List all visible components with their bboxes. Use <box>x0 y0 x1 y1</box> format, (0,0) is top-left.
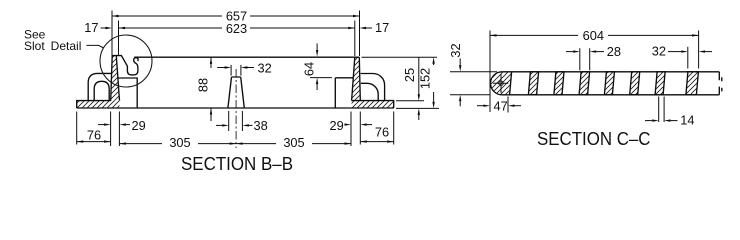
svg-text:SECTION B–B: SECTION B–B <box>181 154 293 174</box>
dim 28 <box>566 51 574 53</box>
dim 14 ext lines <box>659 97 664 123</box>
top surface line <box>134 56 359 58</box>
slot profile at top of left wall <box>116 56 138 75</box>
svg-text:305: 305 <box>169 135 190 150</box>
svg-text:76: 76 <box>87 127 101 142</box>
svg-text:SECTION C–C: SECTION C–C <box>537 129 651 149</box>
dim 623 extension lines <box>119 21 355 57</box>
dim 88: top arrow <box>210 57 212 68</box>
dim 305 right <box>236 143 351 145</box>
dim 14 <box>645 120 652 122</box>
right wall (hatched) <box>352 57 361 100</box>
svg-text:32: 32 <box>652 43 666 58</box>
svg-text:64: 64 <box>302 62 317 76</box>
svg-text:305: 305 <box>283 135 304 150</box>
svg-text:17: 17 <box>84 20 98 35</box>
left cap hatch <box>491 72 512 95</box>
slot segment 5 <box>630 72 640 95</box>
break lines right end <box>719 72 722 95</box>
centerline <box>235 69 237 148</box>
dim 17 right <box>360 27 367 29</box>
svg-text:25: 25 <box>402 68 417 82</box>
detail circle <box>100 35 152 87</box>
right block <box>335 78 353 108</box>
dim 32 post <box>217 67 254 69</box>
slot segment 7 <box>686 72 699 95</box>
svg-text:29: 29 <box>330 118 344 133</box>
svg-text:47: 47 <box>493 99 507 114</box>
dim 38 <box>216 124 222 126</box>
slot segment 4 <box>604 72 614 95</box>
right base plate (hatched) <box>352 101 394 108</box>
slot segment 6 <box>655 72 665 95</box>
dim 29 left <box>98 124 105 126</box>
dim 623 <box>119 27 355 29</box>
svg-text:14: 14 <box>680 112 694 127</box>
dim 32 post: ext lines <box>231 65 241 76</box>
cap right edge <box>510 72 512 95</box>
left wall (hatched) <box>111 56 120 101</box>
leader to circle <box>87 45 104 48</box>
dim 47 <box>477 105 484 107</box>
left eye inner <box>94 81 109 100</box>
right eye inner <box>361 83 378 100</box>
dim 28 ext lines <box>580 48 590 70</box>
left eye outer <box>88 73 111 100</box>
svg-text:38: 38 <box>254 118 268 133</box>
left base plate (hatched) <box>77 101 120 108</box>
svg-text:88: 88 <box>196 78 211 92</box>
dim 657 <box>112 15 360 17</box>
dim 47 ext lines <box>507 97 509 113</box>
slot segment 2 <box>554 72 564 95</box>
bar top line <box>502 71 719 73</box>
dim 657 extension lines <box>112 11 360 57</box>
base plate bottom line <box>77 107 394 109</box>
dim 32 left: ext lines <box>450 72 497 95</box>
slot segment 1 <box>528 72 538 95</box>
svg-text:152: 152 <box>418 68 433 89</box>
svg-text:623: 623 <box>226 21 247 36</box>
svg-text:32: 32 <box>448 43 463 57</box>
right side ext lines (25/152) <box>362 57 440 108</box>
left block <box>118 78 137 108</box>
dim 88: bottom arrow <box>210 108 212 121</box>
center post <box>228 77 244 108</box>
svg-text:17: 17 <box>375 20 389 35</box>
svg-text:32: 32 <box>258 60 272 75</box>
svg-text:29: 29 <box>132 118 146 133</box>
right eye outer <box>361 74 385 101</box>
center mark <box>499 81 503 85</box>
dim 64 arrows <box>316 43 318 50</box>
slot segment 3 <box>579 72 590 95</box>
svg-text:76: 76 <box>375 125 389 140</box>
svg-text:28: 28 <box>607 44 621 59</box>
dim 305 left <box>119 143 236 145</box>
dim 152 <box>432 57 434 64</box>
svg-text:Slot Detail: Slot Detail <box>24 39 81 53</box>
dim 604 ext lines <box>490 31 699 113</box>
svg-text:604: 604 <box>583 28 604 43</box>
slot hook <box>134 58 138 68</box>
rounded left end <box>491 72 502 95</box>
bar bottom line <box>502 94 719 96</box>
dim 25 <box>418 57 420 94</box>
dim 604 <box>490 34 699 36</box>
bottom extension lines <box>77 111 394 146</box>
dim 64: ext line <box>310 77 332 79</box>
